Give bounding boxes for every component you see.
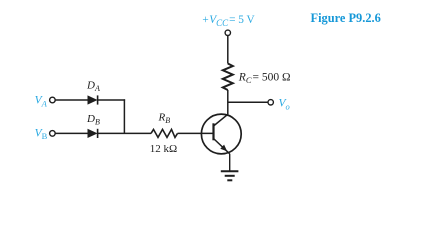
diode DB <box>88 129 98 138</box>
svg-text:RB: RB <box>158 112 171 126</box>
diode DA <box>88 95 98 104</box>
svg-text:Vo: Vo <box>279 98 290 112</box>
ground <box>221 171 239 180</box>
wire RC to transistor collector <box>227 90 229 115</box>
wire VA to DA <box>55 99 87 101</box>
node VB terminal <box>50 131 56 137</box>
wire junction vertical <box>123 99 125 133</box>
wire output tap <box>228 101 268 103</box>
transistor base bar <box>212 123 214 140</box>
wire RB to base <box>178 132 214 134</box>
node VCC terminal <box>225 30 230 35</box>
wire DA to junction <box>98 99 126 101</box>
wire emitter to ground <box>229 154 231 172</box>
emitter arrowhead <box>220 145 227 152</box>
wire DB to RB <box>98 132 151 134</box>
svg-text:RC = 500 Ω: RC = 500 Ω <box>238 72 291 86</box>
svg-text:12 kΩ: 12 kΩ <box>150 143 177 155</box>
transistor emitter lead <box>214 139 230 154</box>
node Vo terminal <box>268 100 273 105</box>
transistor collector lead <box>214 114 229 126</box>
svg-text:+VCC = 5 V: +VCC = 5 V <box>202 14 256 28</box>
wire VB to DB <box>55 132 87 134</box>
svg-text:DA: DA <box>86 80 100 94</box>
node VA terminal <box>50 97 56 103</box>
svg-text:DB: DB <box>86 113 100 127</box>
transistor Q1 circle <box>201 114 241 154</box>
svg-text:Figure P9.2.6: Figure P9.2.6 <box>311 11 381 25</box>
resistor RB <box>151 129 178 137</box>
resistor RC <box>223 64 233 91</box>
wire VCC to RC <box>227 36 229 64</box>
svg-text:VA: VA <box>35 95 48 109</box>
svg-text:VB: VB <box>35 127 48 141</box>
